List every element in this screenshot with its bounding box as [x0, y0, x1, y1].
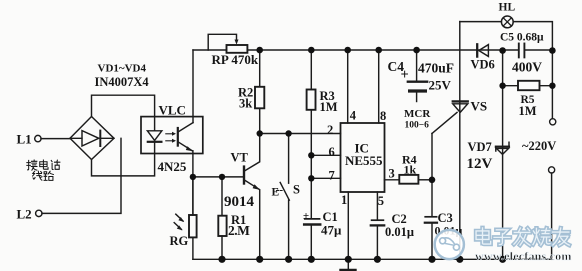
- svg-text:+: +: [401, 67, 409, 83]
- svg-text:MCR: MCR: [404, 108, 431, 120]
- wire VCC rail top: [247, 49, 552, 51]
- timer IC NE555 box: [341, 123, 385, 192]
- node mains terminal 2: [549, 167, 555, 173]
- svg-text:12V: 12V: [467, 156, 493, 172]
- svg-text:VD6: VD6: [471, 58, 495, 72]
- svg-text:VD7: VD7: [468, 140, 492, 154]
- svg-text:HL: HL: [499, 2, 516, 14]
- wire bridge bottom vertex to LED cathode: [92, 143, 155, 176]
- node L1 terminal: [35, 135, 41, 141]
- potentiometer RP wiper loop: [208, 34, 236, 50]
- svg-text:5: 5: [378, 194, 384, 208]
- svg-text:100−6: 100−6: [405, 121, 430, 131]
- svg-text:6: 6: [329, 145, 335, 159]
- resistor R2 3k: [255, 50, 264, 134]
- watermark text 电子发烧友: [476, 228, 569, 245]
- wire pin2 line: [260, 133, 341, 135]
- wire L2 to bridge right vertex: [42, 138, 121, 213]
- svg-text:1: 1: [341, 193, 347, 207]
- wire pin1 down: [347, 192, 349, 259]
- node L2 terminal: [36, 210, 42, 216]
- svg-text:~220V: ~220V: [522, 139, 556, 153]
- capacitor C4 470uF: [408, 50, 427, 102]
- ground: [341, 259, 356, 271]
- capacitor C2 0.01u: [371, 220, 384, 259]
- wire mains right vertical: [551, 51, 553, 119]
- diode VD6: [477, 44, 488, 56]
- svg-text:1k: 1k: [404, 163, 417, 177]
- wire RP left line: [193, 49, 227, 51]
- transistor VT 9014: [244, 134, 260, 260]
- wire pin4: [347, 50, 349, 123]
- svg-text:3k: 3k: [239, 97, 252, 111]
- capacitor C5 0.68u: [519, 44, 525, 58]
- svg-text:VLC: VLC: [159, 103, 186, 118]
- label 接电话 线路 (connect phone line): [27, 160, 60, 180]
- switch S with lever: [277, 134, 290, 260]
- resistor R1 2M: [218, 177, 226, 259]
- wire pin3 stub: [385, 179, 400, 181]
- resistor R5 1M: [503, 81, 553, 90]
- node mains terminal 1: [550, 119, 556, 125]
- diode bridge VD1-VD4 outline: [70, 117, 114, 160]
- svg-text:25V: 25V: [429, 77, 452, 92]
- svg-text:2.M: 2.M: [228, 223, 250, 238]
- phototransistor inside VLC: [178, 123, 193, 152]
- wire ground bottom rail: [193, 258, 552, 260]
- light arrows inside VLC: [166, 132, 176, 143]
- svg-text:www.elecfans.com: www.elecfans.com: [475, 249, 572, 263]
- svg-text:VT: VT: [231, 151, 249, 165]
- wire emitter down from VLC to base line: [192, 151, 194, 215]
- svg-text:L1: L1: [17, 132, 32, 147]
- svg-text:8: 8: [380, 109, 386, 123]
- svg-text:RP 470k: RP 470k: [212, 52, 259, 67]
- svg-text:2: 2: [327, 123, 333, 137]
- wire pin6 stub: [311, 154, 340, 156]
- wire gate column to C3: [431, 134, 433, 217]
- watermark logo circle: [435, 230, 464, 259]
- LED inside VLC: [147, 131, 161, 142]
- svg-text:7: 7: [329, 169, 335, 183]
- potentiometer RP 470k body: [227, 45, 248, 53]
- svg-text:470uF: 470uF: [418, 61, 454, 76]
- svg-text:4: 4: [350, 109, 357, 123]
- svg-text:9014: 9014: [224, 194, 255, 210]
- capacitor C1 47u: [304, 219, 320, 259]
- svg-text:4N25: 4N25: [158, 159, 187, 174]
- svg-text:E: E: [272, 187, 280, 199]
- svg-text:NE555: NE555: [345, 153, 383, 168]
- svg-text:IN4007X4: IN4007X4: [95, 75, 150, 89]
- optocoupler VLC box: [141, 117, 203, 154]
- svg-text:0.01μ: 0.01μ: [385, 225, 414, 239]
- svg-text:3: 3: [389, 167, 395, 181]
- wire mains down to bottom rail: [551, 173, 553, 259]
- svg-text:1M: 1M: [519, 104, 537, 118]
- capacitor C3 0.01u: [425, 217, 437, 259]
- svg-text:VS: VS: [471, 99, 488, 114]
- wire pin8: [378, 50, 380, 123]
- wire L1 to bridge: [41, 138, 70, 140]
- resistor R3 1M: [307, 50, 316, 218]
- svg-text:S: S: [293, 183, 300, 197]
- svg-text:C5 0.68μ: C5 0.68μ: [500, 32, 544, 44]
- wire collector up from VLC to RP line: [192, 50, 194, 123]
- zener diode VD7 12V: [496, 51, 509, 260]
- thyristor VS MCR100-6: [432, 22, 468, 260]
- wire pin5 down: [376, 192, 378, 219]
- svg-text:400V: 400V: [512, 60, 542, 75]
- svg-text:±: ±: [303, 210, 309, 222]
- wire base line: [193, 176, 244, 178]
- svg-text:RG: RG: [170, 234, 189, 248]
- wire bridge top vertex to LED anode: [92, 95, 155, 131]
- diode inside bridge: [70, 131, 114, 146]
- svg-text:47μ: 47μ: [321, 223, 342, 238]
- svg-text:VD1~VD4: VD1~VD4: [98, 63, 147, 75]
- svg-text:L2: L2: [17, 207, 32, 222]
- resistor R4 1k: [399, 175, 432, 184]
- svg-text:1M: 1M: [320, 100, 338, 114]
- lamp HL loop: [460, 16, 553, 47]
- wire pin7 stub: [311, 177, 340, 179]
- photoresistor RG: [174, 177, 196, 259]
